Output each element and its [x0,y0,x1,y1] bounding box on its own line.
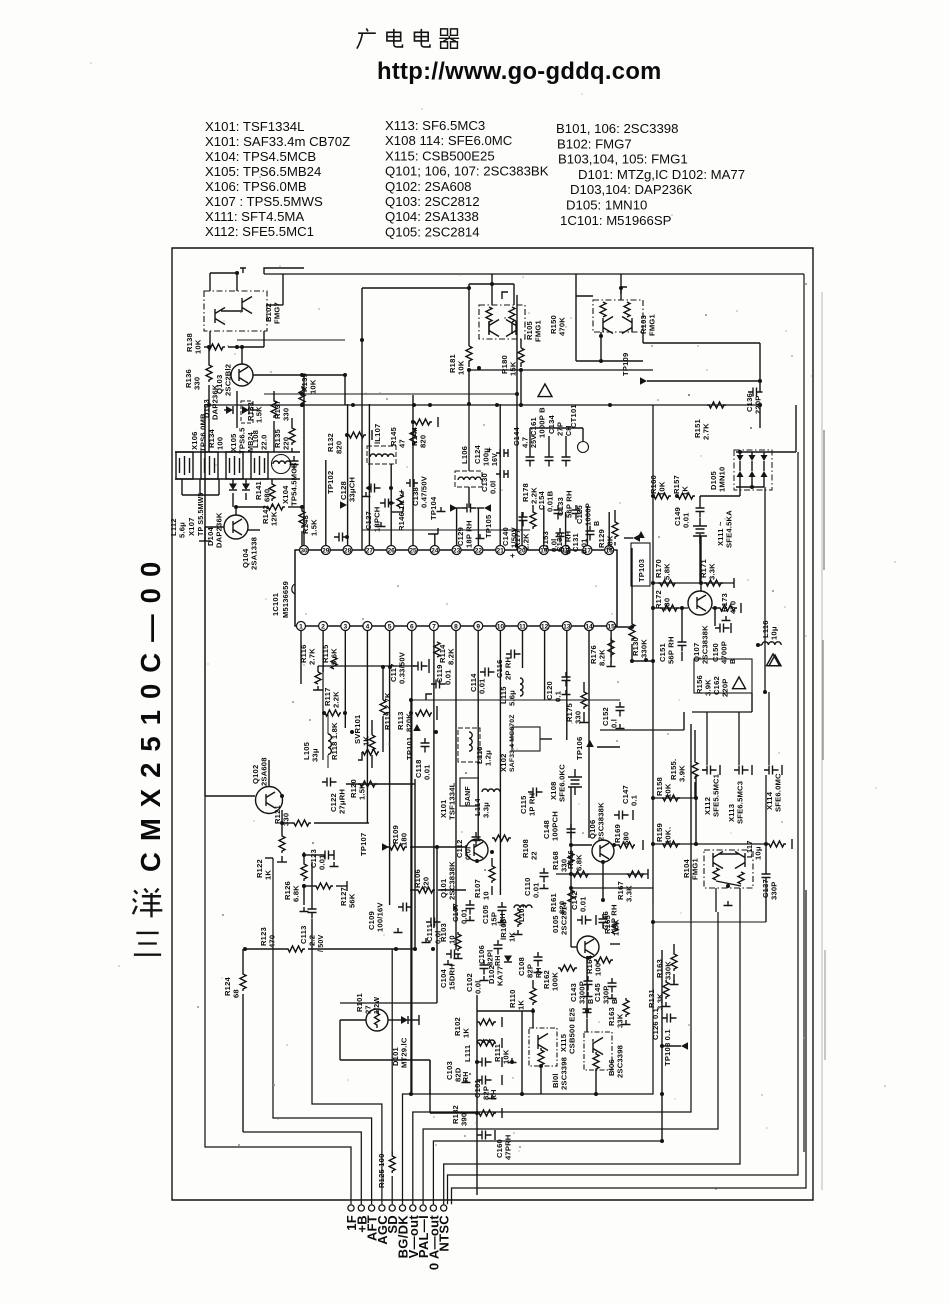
svg-text:23: 23 [453,548,461,555]
svg-text:27: 27 [366,548,374,555]
svg-text:18P RH: 18P RH [465,520,474,548]
svg-text:B: B [594,521,601,526]
svg-text:3.3K: 3.3K [708,563,717,580]
svg-text:390: 390 [460,1113,469,1126]
svg-text:3: 3 [343,624,347,631]
svg-text:X105: TPS6.5MB24: X105: TPS6.5MB24 [205,164,321,179]
svg-text:X115: CSB500E25: X115: CSB500E25 [385,148,495,163]
svg-text:8.2K: 8.2K [598,649,607,666]
svg-text:1/2W: 1/2W [374,997,381,1014]
svg-text:100PCH: 100PCH [551,811,560,841]
svg-text:6.8K: 6.8K [292,885,301,902]
svg-text:C126 0.1: C126 0.1 [651,1008,660,1040]
svg-text:56K: 56K [348,893,357,908]
svg-text:0.33/50V: 0.33/50V [398,651,407,684]
svg-text:330K: 330K [640,639,649,658]
svg-text:25: 25 [409,548,417,555]
svg-text:TP105: TP105 [484,514,493,538]
svg-text:11: 11 [519,624,526,631]
svg-text:330: 330 [663,598,672,611]
svg-text:0.01: 0.01 [478,678,487,694]
svg-text:0.1: 0.1 [630,794,639,806]
svg-text:68K: 68K [606,535,615,550]
svg-text:47PRH: 47PRH [504,1135,513,1160]
svg-text:DAP236K: DAP236K [211,384,220,420]
svg-text:4: 4 [366,624,370,631]
svg-text:2SC3838K: 2SC3838K [701,625,710,664]
svg-text:4700P: 4700P [720,641,729,664]
svg-text:KA77: KA77 [496,966,505,986]
svg-text:10μ: 10μ [754,846,763,860]
svg-text:0.01: 0.01 [460,908,469,924]
svg-text:5.6μ: 5.6μ [508,690,517,706]
svg-text:5.6μ: 5.6μ [178,522,187,538]
svg-text:0.0l: 0.0l [464,847,473,860]
svg-text:Q105: 2SC2814: Q105: 2SC2814 [385,224,480,239]
svg-text:SFE4.5KA: SFE4.5KA [725,510,734,548]
svg-text:0.01: 0.01 [580,538,589,554]
svg-text:M5136659: M5136659 [281,581,290,618]
svg-text:1C101: 1C101 [271,593,280,616]
svg-text:330P: 330P [602,985,611,1004]
svg-text:13: 13 [563,624,571,631]
svg-text:0.1: 0.1 [554,690,563,702]
svg-text:SFE6.0KC: SFE6.0KC [558,764,567,802]
svg-text:330: 330 [193,377,202,390]
svg-text:22: 22 [475,548,483,555]
svg-text:X101: TSF1334L: X101: TSF1334L [205,119,304,134]
svg-text:12: 12 [541,624,549,631]
svg-text:TP106: TP106 [575,737,584,760]
svg-text:3.3μ: 3.3μ [482,802,491,818]
svg-text:B: B [612,999,619,1004]
svg-text:0.l: 0.l [610,719,619,728]
svg-text:Q102: 2SA608: Q102: 2SA608 [385,179,472,194]
svg-text:1MN10: 1MN10 [718,467,727,492]
svg-text:10: 10 [448,935,457,944]
svg-text:0.01: 0.01 [423,764,432,780]
svg-text:TP104: TP104 [429,496,438,520]
svg-text:82P: 82P [526,964,535,978]
svg-text:SFE5.5MC1: SFE5.5MC1 [712,773,721,817]
svg-text:+: + [508,553,517,558]
svg-text:10μ: 10μ [770,626,779,640]
svg-text:5.8K: 5.8K [663,563,672,580]
svg-text:100K: 100K [551,972,560,991]
svg-text:MT29.lC: MT29.lC [400,1037,409,1068]
svg-text:R146 1K: R146 1K [397,499,406,531]
svg-text:FMG1: FMG1 [691,858,700,880]
svg-text:2.2K: 2.2K [522,533,531,550]
svg-text:220: 220 [282,437,291,450]
svg-text:820: 820 [335,441,344,454]
svg-text:D103,104: DAP236K: D103,104: DAP236K [570,182,693,197]
svg-text:10K: 10K [502,1049,511,1064]
svg-text:SANF: SANF [465,786,472,806]
svg-text:1000P B: 1000P B [538,407,547,438]
svg-text:3.9K: 3.9K [678,765,687,782]
svg-text:R119 2.7K: R119 2.7K [383,692,392,730]
svg-text:0.01: 0.01 [682,512,691,528]
svg-text:1K: 1K [362,736,371,746]
svg-text:X101: SAF33.4m CB70Z: X101: SAF33.4m CB70Z [205,134,350,149]
svg-text:15: 15 [607,624,615,631]
svg-text:820K: 820K [405,713,414,732]
svg-text:2: 2 [321,624,325,631]
svg-text:http://www.go-gddq.com: http://www.go-gddq.com [377,58,662,85]
svg-text:0.0l: 0.0l [489,481,498,494]
svg-text:1P RH: 1P RH [528,793,537,816]
svg-text:CMX2510C—00: CMX2510C—00 [135,551,166,872]
svg-text:100: 100 [594,963,603,976]
svg-text:2.7K: 2.7K [702,423,711,440]
svg-text:FMG1: FMG1 [648,314,657,336]
svg-text:21: 21 [497,548,505,555]
svg-text:RH: RH [495,955,502,966]
svg-text:DAP236K: DAP236K [215,512,224,548]
svg-text:X108 114: SFE6.0MC: X108 114: SFE6.0MC [385,133,513,148]
svg-text:10K: 10K [309,379,318,394]
svg-text:R125 100: R125 100 [377,1153,386,1188]
svg-text:TP107: TP107 [359,833,368,856]
svg-text:CSB500 E25: CSB500 E25 [568,1007,577,1054]
svg-text:29: 29 [322,548,330,555]
svg-text:330: 330 [282,408,291,421]
svg-text:2SC3398: 2SC3398 [616,1045,625,1078]
svg-text:X113: SF6.5MC3: X113: SF6.5MC3 [385,118,485,133]
svg-text:Q104: 2SA1338: Q104: 2SA1338 [385,209,479,224]
svg-text:28: 28 [344,548,352,555]
svg-text:B103,104, 105: FMG1: B103,104, 105: FMG1 [558,152,688,167]
svg-text:8: 8 [454,624,458,631]
svg-text:3.3K: 3.3K [656,993,665,1010]
svg-text:33μCH: 33μCH [348,477,357,502]
svg-text:6.8K: 6.8K [575,854,584,871]
svg-text:D105: 1MN10: D105: 1MN10 [566,198,647,213]
svg-text:33μ: 33μ [311,748,320,762]
svg-text:470K: 470K [558,317,567,336]
svg-text:470: 470 [729,601,738,614]
svg-text:22.0: 22.0 [260,434,269,450]
svg-text:27μRH: 27μRH [338,789,347,814]
svg-text:TP102: TP102 [326,471,335,494]
svg-text:/ 50V: / 50V [318,935,325,952]
svg-text:2.2K: 2.2K [332,691,341,708]
svg-text:22: 22 [530,851,539,860]
svg-text:B102: FMG7: B102: FMG7 [557,136,632,151]
svg-text:27P: 27P [556,422,565,436]
svg-text:27: 27 [364,1005,373,1014]
svg-text:2SA1338: 2SA1338 [250,537,259,570]
svg-text:56P RH: 56P RH [667,636,676,664]
svg-text:0.01: 0.01 [532,882,541,898]
svg-text:NTSC: NTSC [437,1215,452,1252]
svg-text:2SC2Bl2: 2SC2Bl2 [224,364,233,396]
svg-text:82D: 82D [454,1067,463,1082]
svg-text:220P: 220P [721,678,730,697]
svg-text:10K: 10K [457,360,466,375]
svg-text:24: 24 [431,548,439,555]
svg-text:TP109: TP109 [621,353,630,376]
svg-text:X112: SFE5.5MC1: X112: SFE5.5MC1 [205,224,314,239]
svg-text:R118 1.8K: R118 1.8K [330,722,339,760]
svg-text:SFE6.0MC: SFE6.0MC [774,773,783,812]
svg-text:10: 10 [482,891,491,900]
svg-text:X106: TPS6.0MB: X106: TPS6.0MB [205,179,307,194]
svg-text:82Pl: 82Pl [486,950,495,966]
svg-text:1.2μ: 1.2μ [484,750,493,766]
svg-text:2SC3838K: 2SC3838K [597,802,606,841]
svg-text:5: 5 [388,624,392,631]
svg-text:2P RH: 2P RH [504,657,513,680]
svg-text:47: 47 [398,439,407,448]
svg-text:1K: 1K [508,932,517,942]
svg-text:100: 100 [216,437,225,450]
svg-text:16V: 16V [492,453,499,466]
svg-text:330K: 330K [664,961,673,980]
svg-text:0.0l: 0.0l [474,981,483,994]
svg-text:TP103: TP103 [637,559,646,582]
svg-text:X102: X102 [499,753,508,772]
svg-text:lL107: lL107 [373,424,382,444]
svg-text:4.7: 4.7 [521,437,530,448]
svg-text:TP54.5MCB: TP54.5MCB [290,462,299,506]
svg-text:30: 30 [300,548,308,555]
svg-text:1K: 1K [264,870,273,880]
svg-text:2.7K: 2.7K [308,648,317,665]
svg-text:FMG1: FMG1 [534,320,543,342]
svg-text:2SC3838K: 2SC3838K [448,861,457,900]
svg-text:2SA608: 2SA608 [260,757,269,786]
svg-text:6: 6 [410,624,414,631]
svg-text:0.01B: 0.01B [546,490,555,512]
svg-text:CT101: CT101 [569,404,578,428]
svg-text:X104: TPS4.5MCB: X104: TPS4.5MCB [205,149,316,164]
svg-text:33K: 33K [616,1013,625,1028]
svg-text:Q101; 106, 107: 2SC383BK: Q101; 106, 107: 2SC383BK [385,164,549,179]
svg-text:X107: X107 [187,517,196,536]
svg-text:1000P: 1000P [584,503,593,526]
svg-text:10: 10 [497,624,505,631]
svg-text:10K: 10K [194,339,203,354]
svg-text:18PCH: 18PCH [373,507,382,532]
svg-text:X111: SFT4.5MA: X111: SFT4.5MA [205,209,304,224]
svg-text:L106: L106 [460,446,469,464]
svg-text:1.5K: 1.5K [255,406,264,423]
svg-text:Q103: 2SC2812: Q103: 2SC2812 [385,194,480,209]
svg-text:0.47/50V: 0.47/50V [420,475,429,508]
svg-text:2SC3398: 2SC3398 [560,1057,569,1090]
svg-text:9: 9 [476,624,480,631]
svg-text:1K: 1K [517,1000,526,1010]
svg-text:68: 68 [232,989,241,998]
svg-text:2SC2814: 2SC2814 [560,901,569,935]
svg-text:15DRH: 15DRH [448,964,457,990]
svg-text:+: + [485,447,494,452]
svg-text:820: 820 [419,435,428,448]
svg-text:TSF1334L: TSF1334L [448,782,457,820]
svg-text:+: + [397,489,406,494]
svg-text:D101: MTZg,IC D102: MA77: D101: MTZg,IC D102: MA77 [578,167,745,182]
svg-text:12K: 12K [270,511,279,526]
svg-text:B101, 106: 2SC3398: B101, 106: 2SC3398 [556,121,678,136]
svg-text:0.01: 0.01 [444,669,453,685]
svg-text:SFE6.5MC3: SFE6.5MC3 [736,781,745,824]
svg-text:1: 1 [299,624,303,631]
svg-text:1C101: M51966SP: 1C101: M51966SP [560,213,672,228]
svg-text:15P: 15P [490,912,499,926]
svg-text:26: 26 [388,548,396,555]
svg-text:TP101: TP101 [405,736,414,760]
svg-text:470: 470 [268,935,277,948]
svg-text:8.2K: 8.2K [447,648,456,665]
svg-text:1.5K: 1.5K [310,519,319,536]
svg-text:X107 : TPS5.5MWS: X107 : TPS5.5MWS [205,194,323,209]
svg-text:330P: 330P [770,881,779,900]
svg-text:15K: 15K [509,361,518,376]
svg-text:14: 14 [585,624,593,631]
svg-text:1K: 1K [462,1028,471,1038]
svg-text:100/16V: 100/16V [376,902,385,932]
svg-text:0.01: 0.01 [579,896,588,912]
svg-text:TP S5.5MW5: TP S5.5MW5 [198,493,205,537]
svg-text:TP108 0.1: TP108 0.1 [663,1029,672,1066]
svg-text:L111: L111 [463,1044,472,1062]
